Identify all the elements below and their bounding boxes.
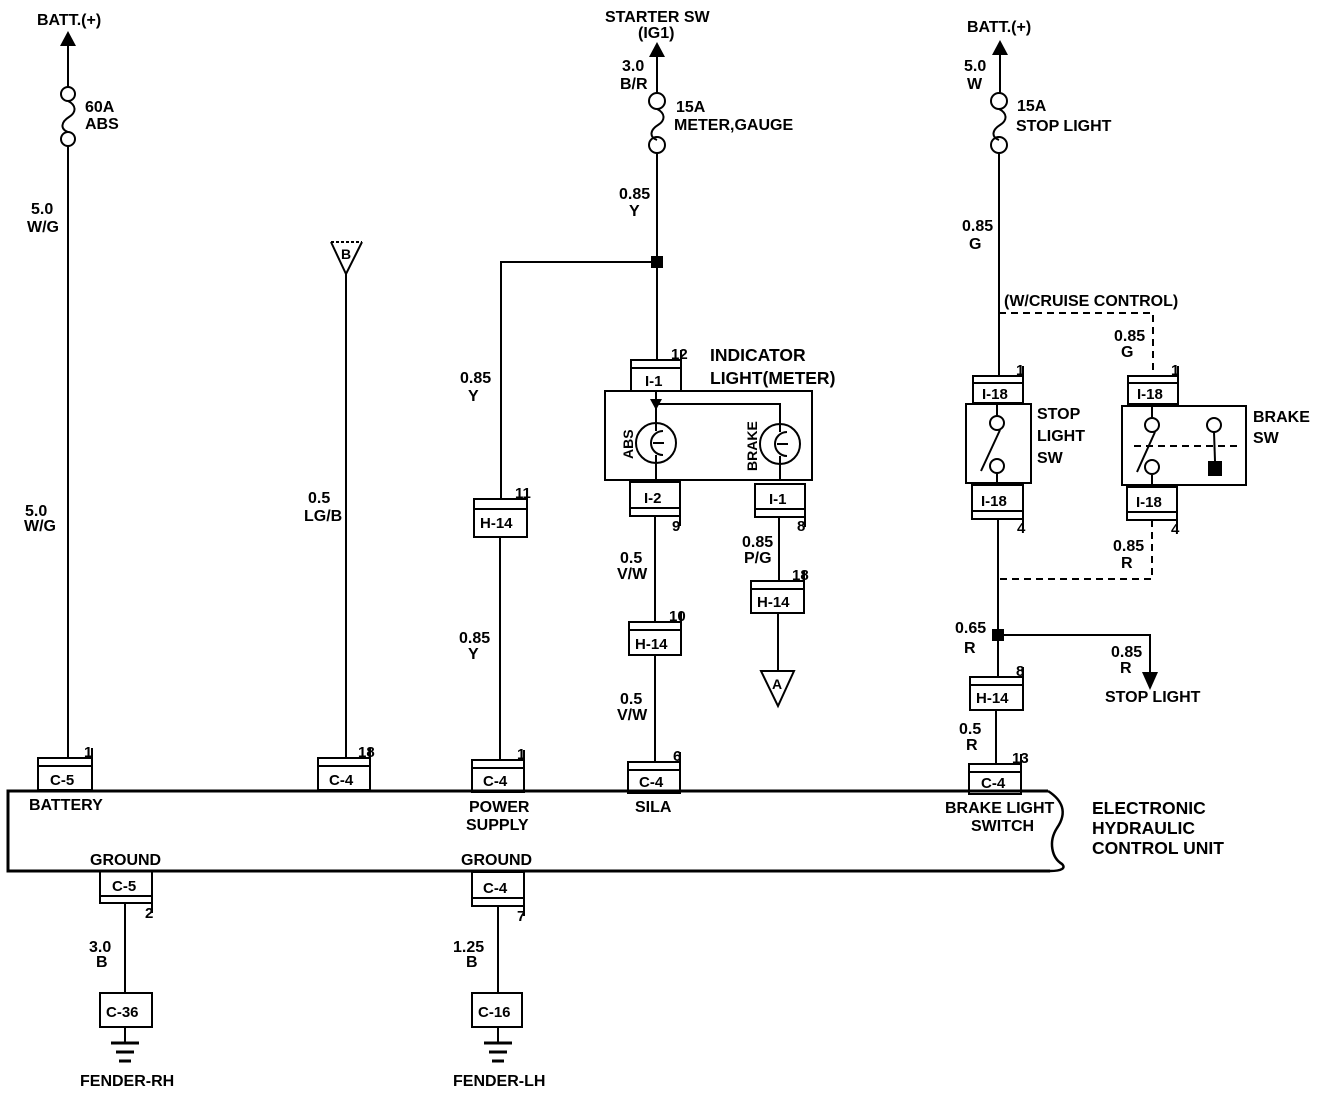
svg-text:1: 1 (1171, 362, 1179, 379)
svg-text:C-4: C-4 (483, 773, 508, 790)
svg-text:(IG1): (IG1) (638, 25, 674, 42)
svg-text:1: 1 (1016, 362, 1024, 379)
svg-text:C-4: C-4 (329, 772, 354, 789)
svg-text:0.85: 0.85 (619, 186, 650, 203)
svg-text:BATTERY: BATTERY (29, 797, 103, 814)
connector I-1 pin 12 (631, 346, 688, 391)
svg-text:I-1: I-1 (769, 491, 787, 508)
svg-text:STOP: STOP (1037, 406, 1081, 423)
svg-text:POWER: POWER (469, 799, 530, 816)
svg-text:GROUND: GROUND (90, 852, 161, 869)
wire 0.85 G (962, 153, 999, 376)
indicator light (meter) box (605, 345, 835, 480)
svg-text:C-36: C-36 (106, 1004, 139, 1021)
svg-text:B: B (96, 954, 108, 971)
svg-text:SW: SW (1253, 430, 1280, 447)
svg-text:B/R: B/R (620, 76, 648, 93)
node B triangle (331, 242, 362, 274)
svg-text:I-18: I-18 (1137, 386, 1163, 403)
svg-text:10: 10 (669, 608, 686, 625)
svg-text:CONTROL UNIT: CONTROL UNIT (1092, 838, 1224, 858)
fuse 60A ABS (61, 87, 119, 146)
fuse 15A METER,GAUGE (649, 93, 793, 153)
connector I-18 pin 4 (stop light sw bottom) (972, 485, 1026, 537)
svg-text:V/W: V/W (617, 566, 648, 583)
svg-text:STOP LIGHT: STOP LIGHT (1105, 689, 1201, 706)
connector I-18 pin 1 (stop light sw top) (973, 362, 1024, 403)
svg-text:G: G (969, 236, 981, 253)
svg-text:0.85: 0.85 (460, 370, 491, 387)
wire 3.0 B (89, 903, 125, 993)
svg-text:FENDER-RH: FENDER-RH (80, 1073, 174, 1090)
wire 1.25 B (453, 906, 498, 993)
svg-text:METER,GAUGE: METER,GAUGE (674, 117, 793, 134)
lamp BRAKE (744, 421, 800, 480)
svg-text:5.0: 5.0 (964, 58, 986, 75)
svg-text:LG/B: LG/B (304, 508, 342, 525)
svg-text:W/G: W/G (24, 518, 56, 535)
svg-text:0.5: 0.5 (308, 490, 330, 507)
svg-text:H-14: H-14 (480, 515, 513, 532)
svg-text:0.85: 0.85 (1111, 644, 1142, 661)
fuse 15A STOP LIGHT (991, 93, 1112, 153)
wire 0.65 R label (955, 620, 986, 657)
connector C-4 pin 1 (power supply) (472, 746, 525, 792)
wire 3.0 B/R (620, 58, 648, 93)
svg-text:11: 11 (515, 485, 531, 502)
svg-text:0.85: 0.85 (962, 218, 993, 235)
connector I-18 pin 1 (brake sw top) (1128, 362, 1179, 404)
connector H-14 pin 11 (474, 485, 531, 537)
connector C-4 pin 18 (318, 744, 375, 790)
connector C-4 pin 13 (brake light switch) (969, 750, 1029, 794)
svg-text:FENDER-LH: FENDER-LH (453, 1073, 545, 1090)
svg-text:C-4: C-4 (981, 775, 1006, 792)
power symbol BATT.(+) right (967, 19, 1031, 94)
svg-text:0.85: 0.85 (742, 534, 773, 551)
power symbol STARTER SW (IG1) (605, 9, 710, 94)
svg-text:0.85: 0.85 (459, 630, 490, 647)
svg-text:I-18: I-18 (982, 386, 1008, 403)
junction stop light node (992, 629, 1004, 641)
svg-text:R: R (1121, 555, 1133, 572)
junction ignition node (651, 256, 663, 268)
svg-text:0.5: 0.5 (620, 691, 642, 708)
svg-text:A: A (772, 676, 782, 692)
lamp ABS (620, 423, 676, 480)
svg-text:4: 4 (1017, 520, 1026, 537)
connector H-14 pin 10 (629, 608, 686, 655)
svg-text:7: 7 (517, 908, 525, 925)
svg-text:V/W: V/W (617, 707, 648, 724)
connector C-16 (472, 993, 522, 1027)
svg-text:INDICATOR: INDICATOR (710, 345, 806, 365)
svg-text:0.5: 0.5 (620, 550, 642, 567)
svg-text:R: R (966, 737, 978, 754)
connector I-18 pin 4 (brake sw bottom) (1127, 487, 1180, 538)
connector H-14 pin 18 (751, 567, 809, 613)
svg-text:BRAKE: BRAKE (1253, 409, 1310, 426)
wire 0.5 V/W lower (617, 655, 655, 762)
svg-text:BATT.(+): BATT.(+) (967, 19, 1031, 36)
svg-text:GROUND: GROUND (461, 852, 532, 869)
svg-text:BATT.(+): BATT.(+) (37, 12, 101, 29)
svg-text:1: 1 (517, 746, 525, 763)
connector C-5 pin 1 (battery) (38, 744, 92, 790)
svg-text:G: G (1121, 344, 1133, 361)
svg-text:R: R (964, 640, 976, 657)
wire branch 0.85 Y from junction to H-14 (460, 262, 655, 499)
connector I-2 pin 9 (630, 482, 680, 535)
svg-text:SILA: SILA (635, 799, 672, 816)
svg-text:ABS: ABS (85, 116, 119, 133)
svg-text:I-18: I-18 (1136, 494, 1162, 511)
svg-text:H-14: H-14 (976, 690, 1009, 707)
junction inside indicator box (650, 399, 662, 410)
wire 0.85 R to stop light (1004, 635, 1201, 706)
svg-text:9: 9 (672, 518, 680, 535)
svg-text:Y: Y (468, 646, 479, 663)
power symbol BATT.(+) left (37, 12, 101, 87)
node A triangle (761, 613, 794, 706)
wire 0.85 P/G (742, 517, 779, 581)
connector C-36 (100, 993, 152, 1027)
svg-text:BRAKE: BRAKE (744, 421, 760, 471)
svg-text:C-16: C-16 (478, 1004, 511, 1021)
svg-text:0.5: 0.5 (959, 721, 981, 738)
svg-text:2: 2 (145, 905, 153, 922)
svg-text:STOP LIGHT: STOP LIGHT (1016, 118, 1112, 135)
svg-text:B: B (341, 246, 351, 262)
svg-text:1: 1 (84, 744, 92, 761)
svg-text:0.65: 0.65 (955, 620, 986, 637)
svg-text:B: B (466, 954, 478, 971)
svg-text:HYDRAULIC: HYDRAULIC (1092, 818, 1195, 838)
connector C-4 pin 7 (ground) (472, 872, 525, 925)
svg-text:18: 18 (792, 567, 809, 584)
svg-text:5.0: 5.0 (31, 201, 53, 218)
svg-text:Y: Y (629, 203, 640, 220)
wire stop light sw to junction (997, 519, 999, 677)
svg-text:H-14: H-14 (635, 636, 668, 653)
ground symbol FENDER-LH (453, 1027, 545, 1090)
svg-text:6: 6 (673, 748, 681, 765)
wire 5.0 W/G battery feed (24, 146, 68, 758)
svg-text:ELECTRONIC: ELECTRONIC (1092, 798, 1206, 818)
svg-text:ABS: ABS (620, 429, 636, 459)
dashed wire 0.85 R return (999, 520, 1152, 579)
svg-text:0.85: 0.85 (1114, 328, 1145, 345)
wire 0.85 Y to power supply (459, 537, 500, 760)
svg-text:4: 4 (1171, 521, 1180, 538)
ECU box ELECTRONIC HYDRAULIC CONTROL UNIT (8, 791, 1224, 871)
svg-text:R: R (1120, 660, 1132, 677)
wire inside indicator box (656, 391, 780, 424)
svg-text:3.0: 3.0 (622, 58, 644, 75)
svg-text:I-18: I-18 (981, 493, 1007, 510)
dashed branch W/CRUISE CONTROL (999, 293, 1178, 376)
svg-text:C-4: C-4 (639, 774, 664, 791)
wire 5.0 W (964, 58, 986, 93)
svg-text:LIGHT: LIGHT (1037, 428, 1085, 445)
svg-text:8: 8 (1016, 663, 1024, 680)
node BRAKE LIGHT SWITCH (945, 800, 1055, 835)
svg-text:SUPPLY: SUPPLY (466, 817, 529, 834)
svg-text:12: 12 (671, 346, 688, 363)
connector C-5 pin 2 (ground) (100, 871, 153, 922)
svg-text:Y: Y (468, 388, 479, 405)
svg-text:SW: SW (1037, 450, 1064, 467)
svg-text:SWITCH: SWITCH (971, 818, 1034, 835)
connector C-4 pin 6 (SILA) (628, 748, 681, 793)
svg-text:18: 18 (358, 744, 375, 761)
brake switch SW (1122, 406, 1310, 487)
wire 0.5 R (959, 710, 996, 764)
svg-text:BRAKE LIGHT: BRAKE LIGHT (945, 800, 1055, 817)
svg-text:(W/CRUISE CONTROL): (W/CRUISE CONTROL) (1004, 293, 1178, 310)
svg-text:C-5: C-5 (50, 772, 74, 789)
svg-text:I-1: I-1 (645, 373, 663, 390)
svg-text:0.85: 0.85 (1113, 538, 1144, 555)
node POWER SUPPLY (466, 799, 530, 834)
svg-text:I-2: I-2 (644, 490, 662, 507)
svg-text:C-4: C-4 (483, 880, 508, 897)
ground symbol FENDER-RH (80, 1027, 174, 1090)
svg-text:STARTER SW: STARTER SW (605, 9, 710, 26)
wire 0.5 LG/B (304, 274, 346, 758)
svg-text:H-14: H-14 (757, 594, 790, 611)
svg-text:60A: 60A (85, 99, 115, 116)
connector H-14 pin 8 (970, 663, 1024, 710)
svg-text:W: W (967, 76, 983, 93)
wire 0.5 V/W upper (617, 516, 655, 622)
stop light switch SW (966, 404, 1085, 485)
svg-text:C-5: C-5 (112, 878, 136, 895)
svg-text:15A: 15A (676, 99, 706, 116)
svg-text:15A: 15A (1017, 98, 1047, 115)
svg-text:8: 8 (797, 518, 805, 535)
svg-text:13: 13 (1012, 750, 1029, 767)
svg-text:LIGHT(METER): LIGHT(METER) (710, 368, 835, 388)
connector I-1 pin 8 (brake lamp) (755, 484, 805, 535)
svg-text:W/G: W/G (27, 219, 59, 236)
wire 0.85 Y ignition (619, 153, 657, 360)
svg-text:P/G: P/G (744, 550, 772, 567)
